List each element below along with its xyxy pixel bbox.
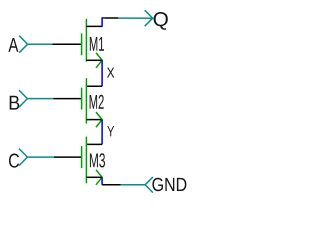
- input port C: [9, 149, 27, 168]
- wire B to M2 gate: [54, 98, 82, 100]
- wire B teal stub: [27, 98, 53, 100]
- node X label: [107, 68, 114, 78]
- node Y vertical (blue): [101, 120, 103, 145]
- wire M1 drain tap: [86, 25, 102, 27]
- node Y label: [107, 126, 114, 136]
- wire C to M3 gate: [54, 156, 81, 158]
- output port Q: [145, 10, 168, 30]
- wire Y to M3 drain: [86, 143, 102, 145]
- wire Q riser (blue): [102, 18, 105, 27]
- wire Q horizontal black: [105, 17, 119, 19]
- input port A: [8, 36, 27, 53]
- wire GND teal stub: [121, 184, 145, 186]
- transistor M2: [82, 78, 104, 127]
- wire M2 source tap: [86, 119, 101, 121]
- ground port GND: [145, 177, 186, 193]
- transistor M3: [82, 137, 105, 185]
- wire M3 source tap: [86, 176, 101, 178]
- wire Q teal stub: [118, 17, 152, 19]
- wire A teal stub: [28, 43, 53, 45]
- wire M1 source tap: [86, 59, 101, 61]
- wire A to M1 gate: [52, 43, 81, 45]
- wire X to M2 drain: [86, 85, 102, 87]
- transistor M1: [82, 19, 104, 68]
- wire GND riser (blue): [101, 177, 103, 185]
- wire GND horizontal black: [102, 184, 121, 186]
- wire C teal stub: [27, 156, 54, 158]
- input port B: [10, 90, 28, 110]
- node X vertical (blue): [101, 60, 103, 86]
